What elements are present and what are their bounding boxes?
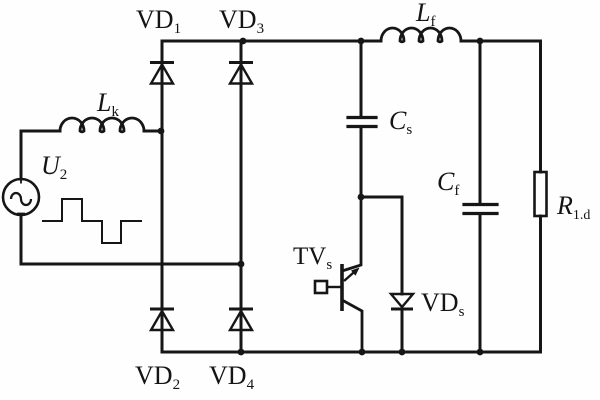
waveform sketch — [42, 199, 142, 243]
wire top rail left — [162, 40, 361, 43]
capacitor Cs — [348, 118, 376, 127]
capacitor Cf — [464, 205, 497, 214]
svg-text:R1.d: R1.d — [556, 191, 590, 223]
node dot Lk bridge — [158, 128, 165, 135]
wire right bridge leg VD3/VD4 — [240, 41, 243, 352]
wire Cf bottom lead — [479, 214, 482, 352]
node dot bottom VD4 — [238, 349, 245, 356]
wire left bridge leg VD1/VD2 — [161, 41, 164, 352]
node dot source to VD3 leg — [238, 261, 245, 268]
svg-text:VD1: VD1 — [136, 5, 181, 37]
node dot Cs collector — [358, 194, 365, 201]
node dot Lf left — [358, 38, 365, 45]
diode VD1 — [150, 63, 174, 84]
wire VDs top lead — [401, 197, 404, 294]
svg-text:Lk: Lk — [96, 88, 119, 120]
svg-text:TVs: TVs — [293, 243, 332, 273]
wire Cs top lead — [360, 41, 363, 116]
AC source U2 — [3, 176, 39, 216]
node dot top VD3 — [240, 38, 247, 45]
wire source bottom lead — [20, 215, 23, 264]
wire right column to resistor — [539, 41, 542, 172]
wire bottom rail — [162, 351, 541, 354]
wire resistor bottom lead — [539, 216, 542, 352]
svg-text:Cs: Cs — [389, 106, 412, 138]
diode VD2 — [150, 309, 174, 330]
diode VD3 — [229, 63, 253, 84]
wire source top lead — [21, 131, 60, 179]
svg-text:U2: U2 — [41, 151, 67, 183]
resistor RLd body — [535, 172, 547, 216]
transistor arrow head — [351, 268, 360, 276]
svg-text:VD3: VD3 — [219, 5, 264, 37]
node dot Lf right — [477, 38, 484, 45]
svg-text:VD4: VD4 — [209, 361, 255, 393]
wire top rail mid — [361, 40, 381, 43]
wire Cs bottom lead — [360, 127, 363, 197]
wire node to VDs — [361, 196, 402, 199]
svg-text:VD2: VD2 — [135, 361, 180, 393]
node dot bottom emitter — [359, 349, 366, 356]
wire VDs bottom lead — [401, 309, 404, 352]
diode VD4 — [229, 309, 253, 330]
wire Lk to bridge — [144, 130, 162, 133]
svg-text:Cf: Cf — [437, 167, 459, 199]
node dot bottom VDs — [399, 349, 406, 356]
wire source to VD3-VD4 midpoint — [21, 263, 241, 266]
node dot bottom Cf — [477, 349, 484, 356]
wire top rail right — [461, 40, 541, 43]
wire Cf top lead — [479, 41, 482, 203]
inductor Lk — [60, 118, 144, 132]
diode VDs — [391, 294, 413, 309]
inductor Lf — [381, 28, 461, 42]
transistor TVs — [315, 197, 362, 352]
svg-text:Lf: Lf — [415, 0, 435, 30]
svg-text:VDs: VDs — [421, 288, 465, 320]
